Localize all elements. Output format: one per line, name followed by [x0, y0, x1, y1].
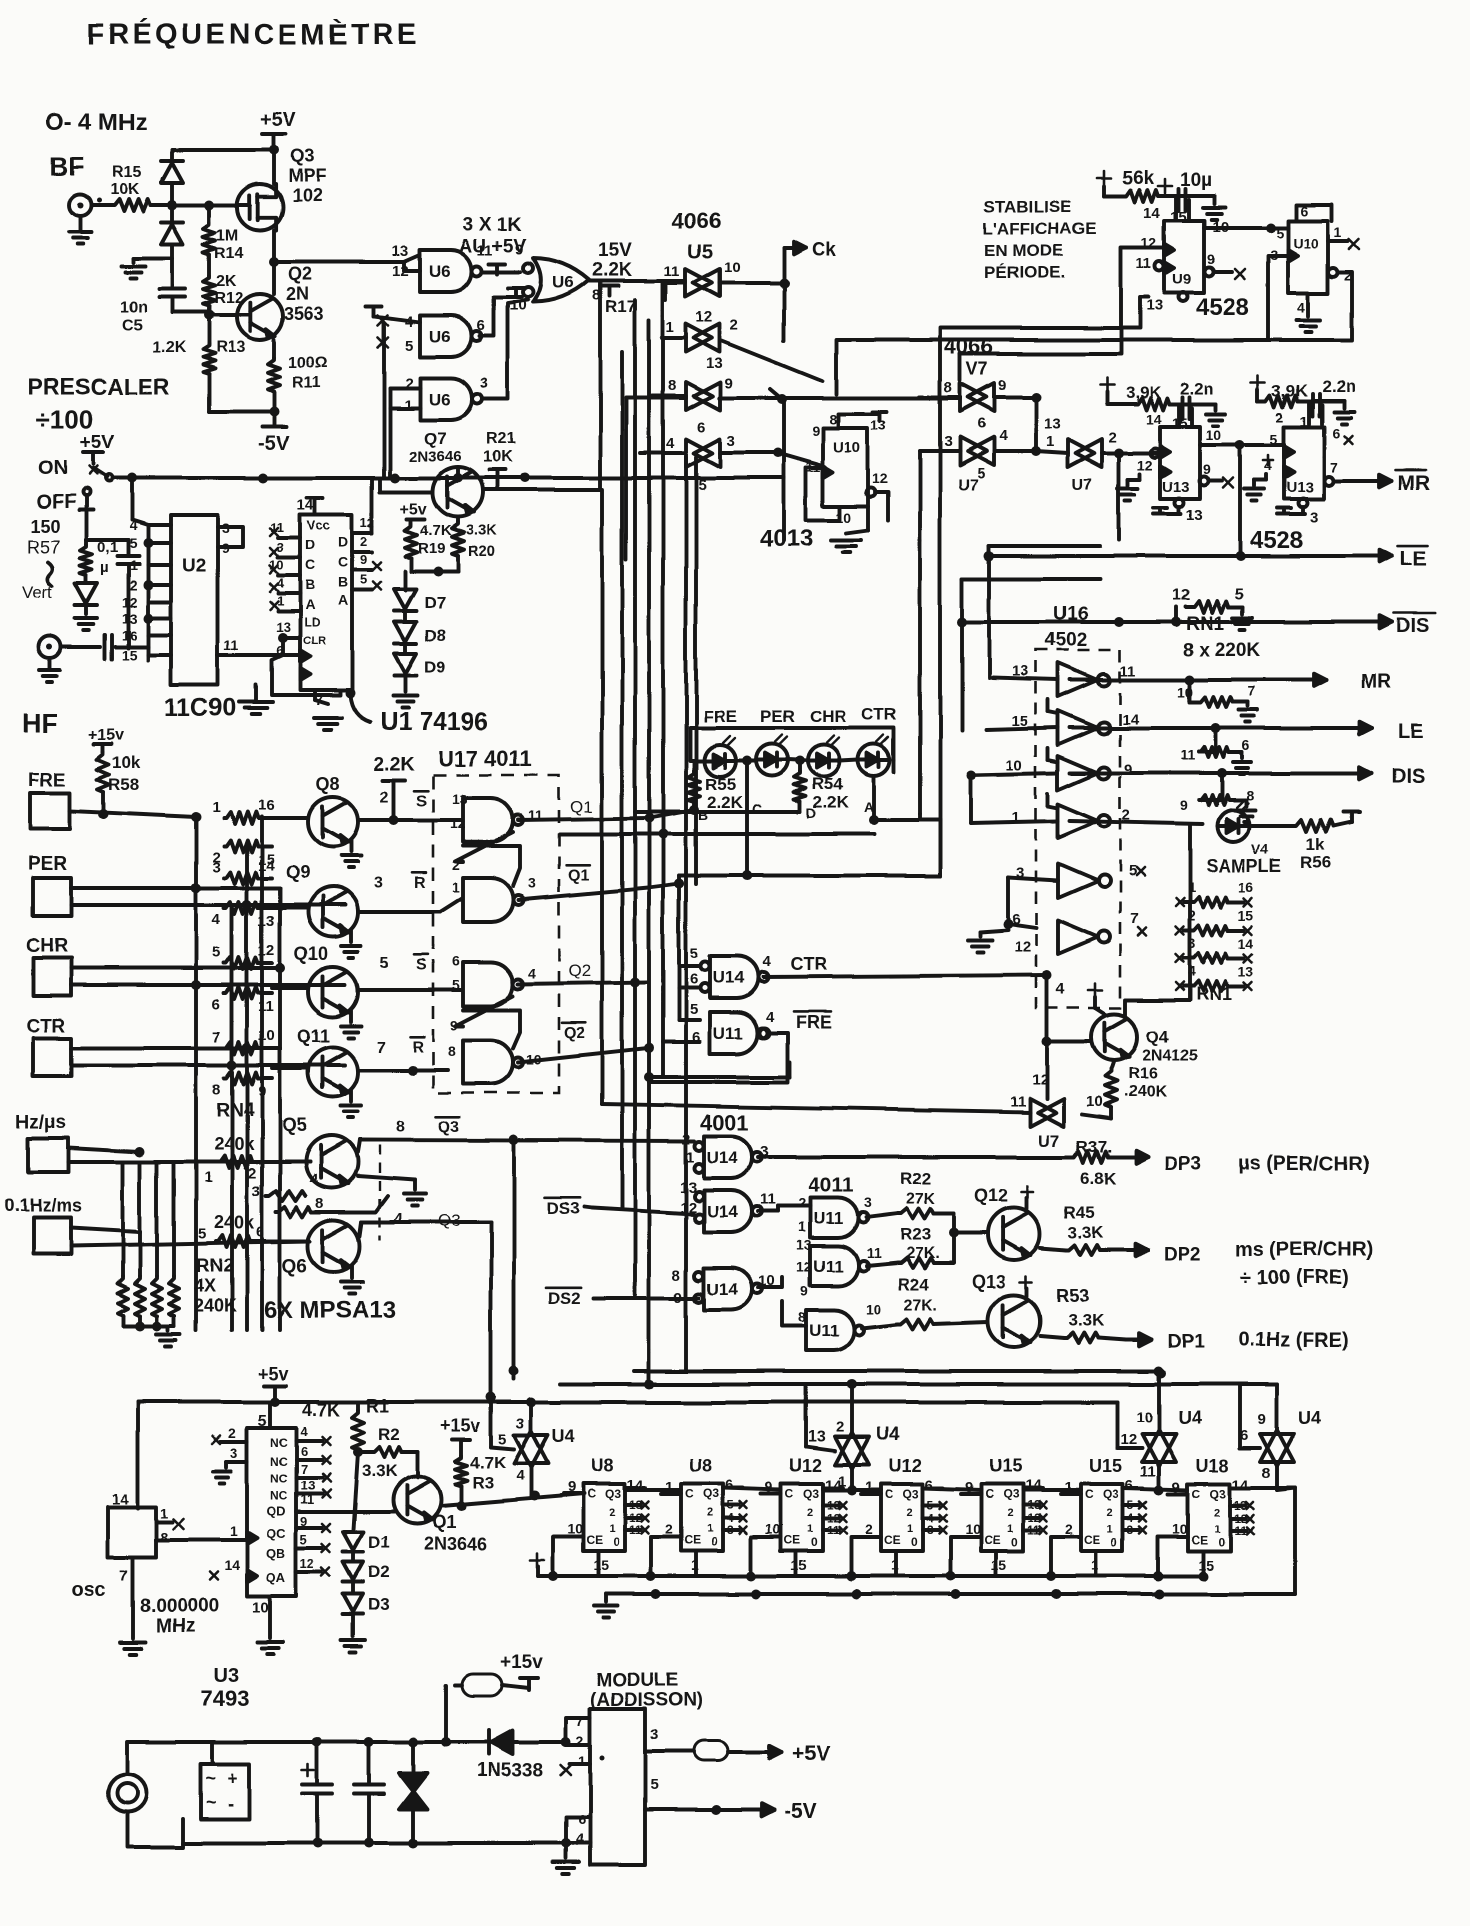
svg-text:15: 15: [121, 647, 137, 663]
svg-text:LD: LD: [304, 616, 320, 630]
svg-text:4: 4: [212, 911, 221, 928]
wire bus to U2: [126, 578, 130, 648]
svg-text:B: B: [698, 807, 708, 823]
svg-text:3: 3: [252, 1183, 260, 1200]
svg-text:CLR: CLR: [303, 635, 326, 647]
input box FRE: [30, 793, 70, 829]
svg-text:FRE: FRE: [796, 1012, 832, 1032]
BNC input J1: [69, 194, 91, 216]
svg-text:6: 6: [925, 1477, 933, 1494]
wire U16 pin10 pin1 vert: [968, 775, 972, 823]
svg-text:DS3: DS3: [546, 1199, 579, 1218]
wire U5a out to CK: [720, 281, 784, 285]
svg-text:R55: R55: [705, 775, 736, 794]
svg-text:Q3: Q3: [703, 1487, 719, 1501]
svg-text:4001: 4001: [700, 1110, 749, 1135]
svg-text:0.1Hz (FRE): 0.1Hz (FRE): [1238, 1329, 1349, 1351]
svg-text:13: 13: [808, 1429, 826, 1446]
ground: [133, 256, 172, 260]
svg-text:A: A: [305, 597, 315, 613]
svg-text:9: 9: [515, 241, 523, 258]
svg-text:DIS: DIS: [1396, 615, 1429, 637]
svg-text:13: 13: [1146, 297, 1163, 314]
svg-text:10: 10: [1206, 427, 1222, 443]
wire MR out: [1334, 479, 1376, 483]
capacitor b: [367, 1742, 371, 1782]
wire misc: [600, 1102, 604, 1106]
wire QD to Q1: [296, 1510, 394, 1514]
svg-text:14: 14: [1146, 411, 1162, 427]
svg-text:4: 4: [1297, 299, 1305, 315]
svg-text:11: 11: [224, 637, 239, 653]
dashed stub: [379, 1145, 381, 1240]
diode 1N5338: [446, 1740, 486, 1744]
resistor R16 240K: [1111, 1060, 1114, 1069]
svg-text:CE: CE: [1191, 1533, 1208, 1547]
svg-text:8: 8: [829, 411, 837, 427]
wire PER: [71, 886, 280, 890]
svg-text:C: C: [587, 1487, 596, 1501]
svg-text:4: 4: [310, 1171, 319, 1188]
pullup T2: [508, 286, 524, 290]
svg-text:BF: BF: [50, 151, 85, 181]
svg-text:5: 5: [452, 977, 460, 993]
svg-text:10: 10: [270, 558, 284, 573]
svg-text:U13: U13: [1286, 479, 1314, 496]
ground: [1212, 196, 1216, 204]
svg-text:1: 1: [230, 1523, 238, 1539]
svg-text:Q2: Q2: [288, 264, 312, 284]
svg-text:OFF: OFF: [36, 491, 76, 513]
svg-text:12: 12: [1137, 457, 1153, 473]
led CTR: [858, 744, 890, 776]
ground U1: [313, 690, 317, 700]
svg-text:3: 3: [944, 433, 952, 450]
svg-text:U6: U6: [429, 390, 451, 409]
svg-text:PÉRIODE.: PÉRIODE.: [984, 263, 1065, 282]
wire to U10 4013: [778, 453, 823, 466]
wire counter out right: [1230, 1488, 1295, 1594]
svg-text:16: 16: [258, 797, 275, 814]
svg-text:-5V: -5V: [784, 1800, 817, 1823]
svg-text:9: 9: [1258, 1411, 1266, 1428]
svg-text:4: 4: [394, 1211, 403, 1228]
svg-text:10K: 10K: [110, 181, 140, 198]
svg-text:10: 10: [836, 509, 852, 525]
svg-text:15: 15: [593, 1557, 609, 1573]
svg-text:FRE: FRE: [28, 770, 66, 791]
svg-text:1: 1: [129, 557, 137, 573]
ic U9 4528: [1164, 221, 1204, 293]
svg-text:12: 12: [696, 309, 713, 326]
wire U7d in: [602, 1104, 1030, 1112]
svg-text:8: 8: [316, 1195, 324, 1212]
wire CTR: [71, 1046, 280, 1050]
svg-text:CTR: CTR: [26, 1016, 65, 1037]
wire C5 to R13 column: [172, 310, 209, 314]
Q6 emitter gnd: [350, 1266, 354, 1278]
wire U10 pin8 loop: [838, 414, 880, 428]
input box Hz/us: [28, 1138, 68, 1172]
wire CHR: [71, 966, 280, 970]
svg-text:1: 1: [160, 1505, 168, 1521]
wire fuse to rail: [444, 1685, 448, 1742]
svg-text:11: 11: [1136, 255, 1151, 271]
U1 right pins: [352, 531, 372, 535]
U17cd cross coupling: [455, 996, 513, 1026]
svg-text:3.3K: 3.3K: [1068, 1223, 1105, 1242]
svg-text:CTR: CTR: [790, 954, 827, 974]
svg-text:R54: R54: [812, 775, 844, 794]
svg-text:CE: CE: [984, 1533, 1001, 1547]
svg-text:1: 1: [907, 1523, 913, 1535]
wire bus v2: [620, 352, 624, 1207]
svg-text:R: R: [412, 1039, 424, 1056]
svg-text:2: 2: [907, 1507, 913, 1519]
svg-text:D2: D2: [368, 1563, 390, 1582]
ground under U2: [254, 685, 258, 700]
wire U10 pin10 loop: [806, 468, 840, 520]
svg-text:U11: U11: [713, 1024, 743, 1043]
svg-text:D1: D1: [368, 1533, 390, 1552]
svg-text:8: 8: [668, 377, 676, 394]
svg-text:C: C: [1192, 1487, 1201, 1501]
wire Q2bar row: [644, 1043, 654, 1053]
wire to gate: [150, 203, 236, 207]
svg-text:Q9: Q9: [286, 862, 310, 882]
resistor R55 2.2K: [692, 761, 696, 772]
svg-text:R53: R53: [1056, 1286, 1089, 1306]
svg-text:10: 10: [567, 1521, 583, 1537]
svg-text:11: 11: [760, 1191, 776, 1208]
svg-text:4: 4: [277, 576, 285, 591]
wire bus v1: [600, 490, 604, 1104]
wire long route B: [940, 328, 1036, 380]
svg-text:2: 2: [609, 1507, 615, 1519]
svg-text:S: S: [416, 957, 427, 974]
svg-text:3: 3: [480, 375, 488, 392]
svg-text:4066: 4066: [672, 208, 721, 233]
svg-text:6: 6: [697, 419, 705, 436]
svg-text:CE: CE: [684, 1533, 701, 1547]
svg-text:14: 14: [224, 1557, 240, 1573]
wire U5b switch blade: [722, 341, 822, 381]
wire U16b out LE: [1070, 726, 1342, 730]
svg-text:MR: MR: [1360, 671, 1392, 693]
svg-text:13: 13: [392, 243, 409, 260]
wire U14b to U11a: [758, 1209, 778, 1213]
svg-text:13: 13: [706, 355, 723, 372]
wire H2: [560, 1382, 1277, 1386]
svg-text:4: 4: [999, 427, 1008, 444]
wire 0.1Hz: [71, 1228, 140, 1232]
led FRE: [704, 745, 736, 777]
power +: [1088, 989, 1102, 992]
svg-text:6: 6: [452, 953, 460, 969]
svg-text:6: 6: [212, 996, 220, 1013]
svg-text:3: 3: [528, 875, 536, 891]
svg-text:C: C: [785, 1487, 794, 1501]
svg-text:µs (PER/CHR): µs (PER/CHR): [1238, 1153, 1370, 1175]
wire bottom rail: [183, 1841, 566, 1845]
svg-text:4066: 4066: [944, 334, 993, 359]
svg-text:15V: 15V: [598, 240, 632, 261]
svg-text:27K.: 27K.: [904, 1297, 938, 1314]
svg-text:U4: U4: [876, 1424, 899, 1444]
svg-text:11C90: 11C90: [164, 694, 236, 722]
svg-text:CHR: CHR: [810, 707, 847, 726]
svg-text:4: 4: [766, 1009, 775, 1026]
svg-text:6: 6: [690, 971, 698, 988]
svg-text:10: 10: [965, 1521, 981, 1537]
U1 bottom loop: [272, 655, 340, 695]
svg-text:R58: R58: [108, 775, 139, 794]
svg-text:1: 1: [1007, 1523, 1013, 1535]
svg-text:2: 2: [665, 1521, 673, 1537]
svg-text:R14: R14: [214, 245, 243, 262]
svg-text:7: 7: [300, 1462, 307, 1477]
rc network U13b: [1251, 381, 1265, 384]
svg-text:1: 1: [1107, 1523, 1113, 1535]
svg-text:R21: R21: [486, 431, 515, 448]
svg-text:U15: U15: [1089, 1456, 1122, 1476]
svg-text:HF: HF: [22, 708, 58, 738]
svg-text:U12: U12: [789, 1456, 822, 1476]
wire Q1 row: [644, 813, 654, 823]
wire rail left down: [136, 1402, 140, 1508]
svg-text:R13: R13: [216, 339, 245, 356]
resistor R56 1K: [1249, 824, 1294, 828]
wire stub y1077: [649, 1075, 790, 1079]
vertical bus left: [194, 817, 198, 1330]
svg-text:1: 1: [1334, 224, 1342, 240]
svg-text:QB: QB: [266, 1546, 286, 1561]
svg-text:13: 13: [1186, 507, 1203, 524]
U17ab cross coupling: [455, 832, 513, 862]
svg-text:2: 2: [682, 1131, 690, 1148]
wire FRE: [70, 811, 196, 817]
svg-text:Q4: Q4: [1146, 1027, 1169, 1046]
svg-text:2: 2: [129, 577, 137, 593]
dashed box U16: [1036, 650, 1120, 1008]
svg-text:6: 6: [977, 415, 985, 432]
svg-text:CTR: CTR: [862, 705, 897, 724]
svg-text:12: 12: [392, 263, 409, 280]
svg-text:Vcc: Vcc: [307, 518, 330, 533]
svg-text:5: 5: [690, 1001, 698, 1018]
resistor R19 4.7K: [409, 519, 413, 524]
wire CTR out: [763, 975, 1047, 977]
svg-text:1: 1: [707, 1523, 713, 1535]
svg-text:CHR: CHR: [26, 936, 67, 957]
svg-text:FRÉQUENCEMÈTRE: FRÉQUENCEMÈTRE: [87, 17, 420, 51]
svg-text:2: 2: [1276, 409, 1284, 425]
svg-text:0: 0: [1011, 1535, 1018, 1549]
wire U16a out MR: [1070, 678, 1292, 682]
diode D9: [403, 645, 407, 654]
svg-text:14: 14: [112, 1491, 129, 1508]
svg-text:4.7K: 4.7K: [470, 1453, 507, 1472]
svg-text:Q2: Q2: [564, 1025, 585, 1042]
osc box: [108, 1507, 156, 1557]
power + 56k 10u: [1097, 177, 1111, 180]
svg-text:NC: NC: [270, 1436, 288, 1450]
svg-text:U4: U4: [1178, 1408, 1201, 1428]
svg-text:27K.: 27K.: [906, 1245, 940, 1262]
svg-text:11: 11: [866, 1245, 881, 1261]
svg-text:13: 13: [1044, 415, 1061, 432]
rc network U13a: [1100, 384, 1114, 387]
svg-text:2: 2: [865, 1521, 873, 1537]
U1 clk arrows: [300, 650, 310, 662]
wire U10 pin2 route: [1268, 272, 1352, 340]
svg-text:4: 4: [666, 435, 675, 452]
wire main +5 rail: [112, 476, 605, 480]
svg-text:2: 2: [798, 1195, 806, 1211]
svg-text:U8: U8: [591, 1456, 614, 1476]
svg-text:Q3: Q3: [605, 1487, 621, 1501]
wire Q3 route down: [489, 1222, 493, 1447]
svg-text:C: C: [885, 1487, 894, 1501]
svg-text:11: 11: [270, 520, 284, 535]
led Vert: [84, 575, 88, 582]
ic U2 11C90: [171, 515, 218, 685]
svg-text:U11: U11: [813, 1209, 843, 1228]
svg-text:5: 5: [405, 337, 413, 354]
svg-text:2: 2: [730, 317, 738, 334]
svg-text:O- 4 MHz: O- 4 MHz: [45, 109, 148, 136]
svg-text:4: 4: [516, 1467, 525, 1484]
wire R19 R20 join: [409, 558, 413, 571]
resistor 240k a: [218, 1156, 252, 1168]
svg-text:11: 11: [1180, 747, 1195, 763]
svg-text:0: 0: [811, 1535, 818, 1549]
osc ground: [131, 1557, 135, 1638]
svg-text:U8: U8: [689, 1456, 712, 1476]
svg-text:2N: 2N: [286, 284, 309, 304]
svg-text:NC: NC: [270, 1472, 288, 1486]
svg-text:2: 2: [380, 789, 389, 806]
svg-text:LE: LE: [1400, 548, 1427, 571]
svg-text:7: 7: [1130, 911, 1138, 928]
svg-text:5: 5: [258, 1413, 267, 1430]
wire Q4 collector up: [1125, 824, 1190, 1016]
svg-text:6.8K: 6.8K: [1080, 1169, 1117, 1188]
svg-text:10: 10: [1136, 1409, 1153, 1426]
svg-text:RN1: RN1: [1196, 984, 1232, 1004]
wire bus v4: [647, 320, 651, 1384]
wire U14 CTR in: [677, 884, 681, 1020]
svg-text:1: 1: [452, 879, 460, 895]
svg-text:U18: U18: [1196, 1456, 1229, 1476]
diode D4: [170, 150, 174, 160]
svg-text:9: 9: [1180, 797, 1188, 813]
svg-text:5: 5: [1270, 431, 1278, 447]
diode D7: [394, 589, 416, 609]
wire DS3 row: [584, 1207, 592, 1208]
svg-text:10: 10: [1006, 757, 1023, 774]
ic U10 4013: [823, 428, 868, 506]
svg-text:102: 102: [292, 186, 322, 206]
wire DP3: [758, 1155, 1072, 1159]
wire U2 left bus down: [132, 520, 148, 525]
svg-text:R: R: [414, 875, 426, 892]
svg-text:7: 7: [120, 1567, 128, 1584]
wire bus v5: [661, 283, 665, 1077]
wire U6b loop: [480, 297, 522, 336]
svg-text:9: 9: [258, 1083, 266, 1100]
svg-text:R24: R24: [898, 1275, 930, 1294]
svg-text:Vert: Vert: [22, 583, 53, 602]
svg-text:14: 14: [1238, 935, 1254, 951]
svg-text:5: 5: [198, 1225, 206, 1242]
wire V7b in: [920, 449, 960, 453]
svg-text:3 X 1K: 3 X 1K: [463, 214, 521, 235]
svg-text:6: 6: [578, 1811, 586, 1827]
svg-text:1: 1: [204, 1169, 212, 1186]
svg-text:2: 2: [1107, 1507, 1113, 1519]
svg-text:D8: D8: [424, 626, 446, 645]
svg-text:7493: 7493: [200, 1686, 249, 1711]
svg-text:5: 5: [129, 535, 137, 551]
svg-text:9: 9: [1207, 251, 1215, 267]
svg-text:7: 7: [212, 1029, 220, 1046]
svg-text:Q2: Q2: [568, 961, 591, 980]
capacitor C+ a: [302, 1769, 314, 1772]
svg-text:9: 9: [812, 423, 820, 439]
wire Q2 out: [518, 982, 648, 984]
svg-text:R2: R2: [378, 1425, 400, 1444]
wire FREbar out loop: [760, 1028, 770, 1038]
svg-text:3: 3: [374, 875, 383, 892]
wire B node: [649, 810, 694, 818]
capacitor HF in: [61, 645, 100, 649]
svg-text:2.2K: 2.2K: [592, 260, 632, 281]
wire H3: [560, 1400, 1117, 1404]
wire U9 pin13 route: [1036, 297, 1148, 328]
svg-text:L'AFFICHAGE: L'AFFICHAGE: [983, 219, 1097, 238]
svg-text:+15v: +15v: [440, 1416, 481, 1436]
svg-text:4.7K: 4.7K: [420, 522, 452, 539]
wire bus v10: [918, 540, 922, 814]
svg-text:÷ 100 (FRE): ÷ 100 (FRE): [1240, 1267, 1349, 1289]
svg-text:9: 9: [724, 375, 732, 392]
svg-text:Q12: Q12: [974, 1186, 1008, 1206]
svg-text:U7: U7: [958, 477, 979, 494]
svg-text:QC: QC: [266, 1526, 286, 1541]
svg-text:1: 1: [404, 397, 412, 414]
wire Hz: [68, 1148, 140, 1152]
svg-text:NC: NC: [270, 1455, 288, 1469]
svg-text:B: B: [338, 574, 348, 590]
U3 clk arrows: [247, 1532, 257, 1544]
svg-text:1: 1: [212, 799, 220, 816]
svg-text:10: 10: [866, 1301, 882, 1317]
svg-text:9: 9: [800, 1283, 808, 1299]
svg-text:R11: R11: [292, 375, 321, 392]
ic U13b 4528: [1284, 427, 1324, 499]
svg-text:Q7: Q7: [424, 429, 447, 448]
svg-text:1M: 1M: [216, 227, 238, 244]
svg-text:14: 14: [1143, 205, 1160, 222]
svg-text:1: 1: [1214, 1523, 1220, 1535]
wire Q2bar out: [518, 1048, 648, 1062]
svg-text:NC: NC: [270, 1489, 288, 1503]
svg-text:U1 74196: U1 74196: [380, 708, 488, 736]
svg-text:6: 6: [1125, 1477, 1133, 1494]
ground counter: [604, 1594, 608, 1602]
wire CE bus: [538, 1574, 1202, 1578]
